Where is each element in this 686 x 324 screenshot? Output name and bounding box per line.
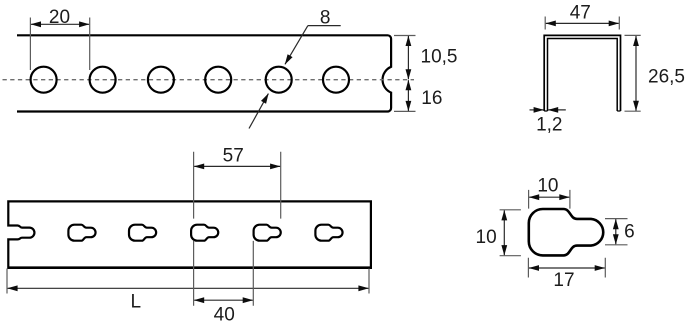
detail dimension 17 extension lines (528, 258, 605, 278)
hole 2 (90, 67, 116, 93)
dimension 40 line (194, 299, 253, 301)
leader 8 lower (249, 94, 268, 129)
svg-text:10,5: 10,5 (421, 47, 458, 68)
U channel inner (548, 39, 618, 112)
dimension 47 extension lines (545, 17, 619, 30)
dimension L line (8, 287, 369, 289)
detail dimension 17 line (529, 267, 605, 269)
hole 1 (31, 67, 57, 93)
svg-text:26,5: 26,5 (648, 66, 685, 87)
dimension 57 extension lines (194, 152, 281, 219)
svg-text:47: 47 (570, 3, 591, 24)
svg-text:16: 16 (421, 88, 442, 109)
svg-text:40: 40 (214, 304, 235, 324)
centerline (3, 79, 415, 81)
dimension L extension lines (7, 269, 369, 294)
leader 8 upper (308, 25, 341, 27)
hole 5 (266, 67, 292, 93)
detail dimension 10 top extension lines (529, 190, 570, 209)
dimension 57 line (194, 165, 280, 167)
keyhole slot 2 (129, 225, 156, 241)
svg-text:57: 57 (223, 145, 244, 166)
svg-text:10: 10 (537, 175, 558, 196)
dimension 20 extension lines (30, 18, 89, 71)
top strip outline (17, 35, 391, 111)
svg-text:20: 20 (49, 7, 70, 28)
U channel outer (544, 35, 620, 111)
dimension 26,5 line (635, 36, 637, 111)
dimension 10,5 / 16 ticks (394, 36, 416, 112)
keyhole slot 4 (254, 225, 281, 241)
svg-text:L: L (131, 291, 142, 312)
dimension 10,5 line (407, 36, 409, 79)
dimension 16 line (407, 80, 409, 111)
svg-text:17: 17 (553, 270, 574, 291)
hole 6 (323, 67, 349, 93)
U channel wall bottoms (544, 110, 620, 112)
dimension 26,5 ticks (625, 35, 641, 111)
detail dimension 10 left line (503, 210, 505, 255)
detail dimension 6 ticks (605, 219, 628, 245)
svg-text:1,2: 1,2 (536, 114, 562, 135)
keyhole slot 5 (315, 225, 342, 241)
bottom strip outline with edge notch (8, 201, 371, 268)
keyhole slot 1 (68, 225, 95, 241)
detail dimension 10 top line (529, 196, 569, 198)
bottom strip lower edge (thick) (8, 266, 371, 269)
dimension 47 line (546, 22, 619, 24)
svg-text:6: 6 (624, 222, 635, 243)
dimension 40 extension lines (194, 241, 254, 306)
dimension 1,2 arrows (530, 109, 544, 111)
hole 4 (205, 67, 231, 93)
keyhole detail outline (529, 209, 603, 255)
svg-text:10: 10 (476, 227, 497, 248)
hole 3 (148, 67, 174, 93)
keyhole slot 3 (191, 225, 218, 241)
detail dimension 10 left ticks (500, 210, 521, 256)
detail dimension 6 line (615, 219, 617, 244)
dimension 20 line (31, 23, 89, 25)
